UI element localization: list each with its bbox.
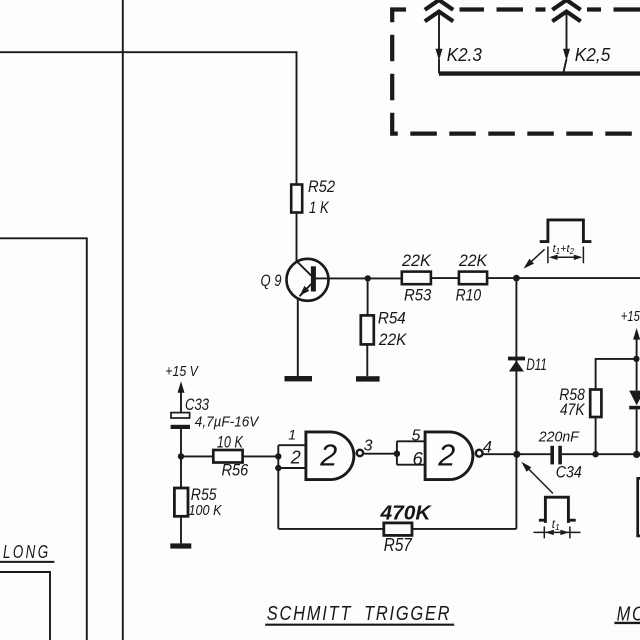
gate U1 input bracket [278,445,306,529]
wire R10 to right edge [487,277,640,279]
svg-text:C34: C34 [556,463,582,482]
svg-text:K2,5: K2,5 [575,45,611,65]
svg-text:1 K: 1 K [309,198,329,217]
wire Q9 base to R53 [315,277,402,279]
svg-text:+15 V: +15 V [165,363,199,380]
svg-text:R57: R57 [384,534,413,555]
svg-text:10 K: 10 K [217,433,243,452]
wire C33 to node [180,429,182,456]
resistor R53 [402,272,431,285]
pulse symbol t1+t2 [540,220,592,242]
svg-text:47K: 47K [560,400,585,419]
svg-text:R52: R52 [308,177,335,196]
wire right diode to output wire [636,409,638,454]
wire node to R54 [367,278,369,315]
gate U2 input bracket [397,441,425,464]
underline MONOFLOP [614,622,640,624]
svg-text:2: 2 [437,437,455,472]
arrow annotation to output node [521,462,553,494]
monoflop block left edge [638,478,640,536]
node gate1 feedback [275,465,281,471]
svg-text:22K: 22K [458,251,488,270]
wire R53 to R10 [431,277,459,279]
svg-text:2: 2 [319,437,337,472]
underline LONG [0,561,54,563]
wire bottom-left corner below LONG [0,572,50,640]
power arrow +15V left [178,381,185,412]
svg-text:+15V: +15V [621,308,640,325]
wire thick relay bus [439,71,640,75]
resistor R10 [459,272,487,285]
svg-text:R54: R54 [378,309,406,328]
wire D11 column down through to feedback [515,278,517,529]
svg-text:3: 3 [364,437,373,454]
ground below Q9 [285,376,313,381]
node gate1 input [275,453,281,459]
svg-text:220nF: 220nF [538,428,580,445]
node gate2 input [394,451,400,457]
resistor R52 [291,185,302,213]
node right edge junction [633,451,640,458]
wire R54 to ground [366,344,368,376]
connector chevrons K2.3 [418,6,460,13]
svg-text:C33: C33 [185,395,209,414]
wire R52 to Q9 collector [297,213,312,276]
svg-text:R10: R10 [456,286,482,305]
svg-text:1: 1 [288,427,296,443]
diode D11 [508,357,525,372]
ground below R55 [170,543,191,548]
dimension t1 [534,527,581,539]
wire node to R55 [180,456,182,488]
svg-text:22K: 22K [401,251,431,270]
wire K2.3 arrow stem [436,14,443,74]
connector chevrons K2.5 [546,6,588,13]
wire right column down to diode [636,359,638,391]
svg-text:R56: R56 [222,461,249,480]
dimension t1+t2 [548,247,584,264]
resistor R58 [590,390,601,418]
node output/feedback [513,451,520,458]
svg-text:470K: 470K [379,502,432,525]
underline SCHMITT TRIGGER [265,624,454,626]
node R58 junction [592,451,598,457]
wire R56 to gate input [243,455,279,457]
wire Q9 emitter down [297,297,299,376]
svg-text:Q 9: Q 9 [261,271,282,290]
ground below R54 [356,376,380,381]
arrow annotation to trigger node [524,249,545,268]
wire mid-left horizontal with corner down [0,238,87,640]
svg-text:D11: D11 [526,355,547,374]
wire R55 to ground [180,516,182,543]
nand gate U1 [306,432,363,480]
node C33 R55 R56 [178,453,184,459]
wire gate2 output to C34 [483,453,550,455]
wire R57 to output node [412,528,516,530]
wire R58 to output wire [595,417,597,454]
resistor R55 [174,488,188,516]
wire gate1 output to gate2 inputs [363,453,397,455]
node +15 branch [633,356,639,362]
svg-text:R55: R55 [191,485,217,504]
wire K2.5 arrow stem [563,14,570,74]
wire vertical line x=122 full height [122,0,124,640]
transistor Q9 [287,259,329,301]
pulse symbol t1 [539,497,576,523]
svg-text:K2.3: K2.3 [447,45,482,65]
capacitor C33 [171,413,190,429]
wire C34 to right edge [562,453,640,455]
wire node to R56 [181,455,213,457]
svg-text:2: 2 [290,447,301,467]
svg-text:100 K: 100 K [189,502,223,519]
dashed frame (relay block) [392,10,640,134]
diode right edge [629,391,640,410]
svg-text:5: 5 [412,427,421,444]
resistor R54 [361,315,374,344]
svg-text:4,7µF-16V: 4,7µF-16V [195,415,260,431]
svg-text:6: 6 [413,448,424,469]
svg-text:22K: 22K [378,330,407,349]
node trigger junction [513,275,520,282]
svg-text:R53: R53 [404,286,432,305]
power arrow +15 right [633,328,640,359]
wire +15 node to R58 branch [596,359,637,390]
resistor R57 [384,523,412,536]
svg-text:SCHMITT TRIGGER: SCHMITT TRIGGER [267,602,452,625]
wire top horizontal bus to R52 [0,52,297,184]
node base/R54 junction [365,275,371,281]
nand gate U2 [425,432,483,480]
resistor R56 [213,450,242,463]
wire feedback row [278,528,384,530]
capacitor C34 [550,446,561,465]
svg-text:LONG: LONG [3,542,51,562]
